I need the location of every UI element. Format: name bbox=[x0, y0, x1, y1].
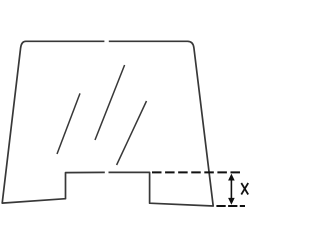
label X stroke 1 bbox=[241, 183, 248, 195]
dimension arrowhead bottom bbox=[228, 198, 235, 205]
panel outline right section bbox=[109, 41, 214, 206]
label X stroke 2 bbox=[241, 183, 248, 195]
dashed extension line upper bbox=[152, 171, 240, 173]
dimension arrowhead top bbox=[228, 174, 235, 181]
panel outline left section bbox=[2, 41, 105, 203]
dashed extension line lower bbox=[216, 205, 245, 207]
hatch line 3 bbox=[117, 101, 147, 165]
hatch line 2 bbox=[95, 65, 125, 140]
hatch line 1 bbox=[57, 93, 80, 154]
dimension arrow shaft bbox=[230, 178, 232, 200]
